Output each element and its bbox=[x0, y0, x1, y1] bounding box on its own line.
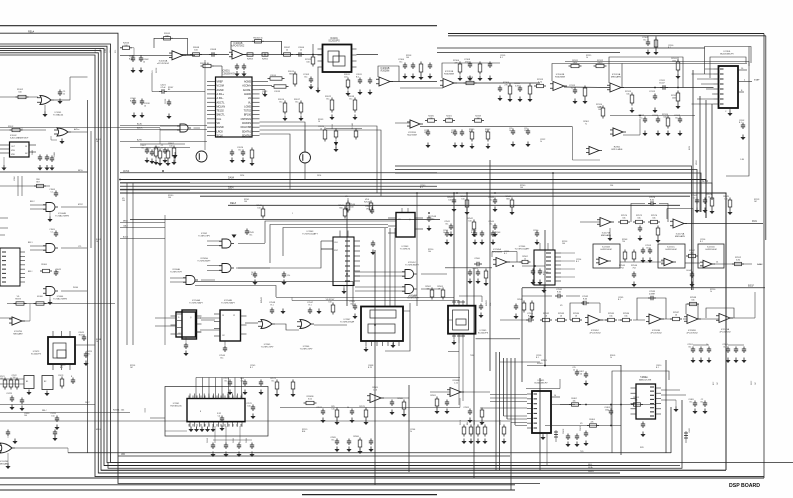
wire bottom bus SDA bbox=[108, 400, 682, 468]
svg-text:SDATA2: SDATA2 bbox=[242, 134, 252, 137]
svg-text:R2561 10k: R2561 10k bbox=[113, 410, 125, 412]
wire 2551D out bbox=[714, 263, 752, 265]
capacitor C2480 bbox=[7, 430, 9, 433]
capacitor C2546v bbox=[254, 272, 256, 275]
svg-text:15k: 15k bbox=[624, 315, 627, 317]
IC IC2546 164 body bbox=[534, 250, 555, 285]
capacitor C2544m bbox=[494, 224, 496, 227]
svg-text:B2: B2 bbox=[44, 381, 46, 383]
resistor R2580 bbox=[402, 402, 406, 409]
svg-text:CLK: CLK bbox=[334, 242, 339, 244]
svg-text:B.1: B.1 bbox=[618, 299, 621, 301]
capacitor C2317 bbox=[461, 130, 463, 133]
svg-text:B1: B1 bbox=[543, 274, 545, 276]
capacitor C2312 bbox=[644, 117, 646, 120]
wire ACD5 bbox=[120, 238, 165, 240]
capacitor C2478b bbox=[11, 396, 13, 399]
svg-text:R2565: R2565 bbox=[486, 299, 488, 306]
capacitor C2318 bbox=[679, 117, 681, 120]
IC IC2551B box bbox=[593, 244, 620, 268]
svg-text:100: 100 bbox=[194, 50, 198, 52]
capacitor C2554 bbox=[633, 272, 635, 275]
svg-text:470: 470 bbox=[447, 118, 450, 120]
wire bus REL bbox=[228, 204, 680, 206]
svg-text:1k: 1k bbox=[443, 232, 445, 234]
capacitor C2562c bbox=[469, 270, 471, 273]
wire bottom frame bbox=[0, 477, 764, 479]
resistor R2017 bbox=[299, 103, 303, 112]
svg-text:C.1k: C.1k bbox=[454, 382, 458, 384]
capacitor C2586b bbox=[348, 439, 350, 442]
svg-text:AGND: AGND bbox=[244, 81, 251, 84]
op-amp IC2001Bb bbox=[553, 81, 564, 90]
svg-text:C1k: C1k bbox=[331, 408, 334, 410]
capacitor C2583b bbox=[469, 409, 471, 412]
svg-text:B.1: B.1 bbox=[536, 357, 539, 359]
op-amp IC2471B bbox=[600, 217, 611, 226]
resistor R2318 bbox=[475, 119, 482, 122]
resistor R2576r bbox=[710, 198, 714, 206]
capacitor C2314 bbox=[657, 117, 659, 120]
IC FF2005 body bbox=[176, 312, 196, 337]
capacitor C2548g bbox=[271, 308, 273, 311]
svg-text:R2571: R2571 bbox=[460, 420, 462, 425]
svg-text:IC2001A: IC2001A bbox=[159, 60, 168, 63]
resistor R2584 bbox=[573, 318, 580, 321]
wire vert x417 bbox=[416, 193, 418, 306]
svg-text:L2401: L2401 bbox=[689, 428, 691, 433]
wire opamp out chain bbox=[243, 54, 322, 56]
IC left DIP pins bbox=[2, 251, 6, 253]
IC IC2101 inner detail bbox=[328, 51, 339, 62]
op-amp IC2581Ax bbox=[687, 314, 698, 323]
IC IC9002 body bbox=[10, 142, 30, 157]
wire A2S0 bbox=[120, 141, 207, 143]
wire c2581 row bbox=[522, 295, 552, 297]
gate IC9003 bbox=[57, 128, 68, 136]
svg-text:100: 100 bbox=[306, 61, 310, 63]
svg-text:C2565: C2565 bbox=[233, 438, 235, 443]
svg-text:TST02: TST02 bbox=[244, 110, 252, 113]
svg-text:C-84: C-84 bbox=[740, 159, 744, 161]
wire ladder2 bbox=[564, 86, 610, 89]
svg-text:1M: 1M bbox=[717, 382, 719, 385]
svg-text:754: 754 bbox=[620, 267, 624, 269]
IC FF2544B body bbox=[220, 310, 241, 341]
wire vert V bbox=[705, 100, 707, 218]
svg-text:10k: 10k bbox=[622, 217, 625, 219]
capacitor C2043l bbox=[83, 335, 85, 338]
svg-text:LRCK: LRCK bbox=[217, 130, 224, 133]
wire 164b outs bbox=[561, 252, 575, 254]
svg-text:TC74HC74FV: TC74HC74FV bbox=[198, 235, 211, 237]
svg-text:NC: NC bbox=[25, 153, 28, 155]
resistor R2564c bbox=[484, 271, 488, 278]
resistor R2007b bbox=[166, 151, 170, 158]
svg-text:13: 13 bbox=[222, 315, 224, 317]
wire vert D bbox=[453, 193, 455, 306]
IC IC2551C box bbox=[658, 244, 685, 268]
svg-text:B04: B04 bbox=[481, 422, 483, 425]
op-amp IC2581C bbox=[588, 315, 600, 325]
svg-text:B.1: B.1 bbox=[656, 367, 659, 369]
svg-text:BFL#: BFL# bbox=[28, 271, 33, 273]
wire bus AVSS bbox=[120, 172, 437, 174]
capacitor C2404b bbox=[576, 434, 578, 437]
svg-text:R2963: R2963 bbox=[247, 59, 254, 61]
svg-text:B07: B07 bbox=[36, 181, 39, 183]
svg-text:15k: 15k bbox=[609, 315, 612, 317]
resistor R2611 bbox=[346, 80, 350, 87]
IC IC2561 outer box bbox=[165, 387, 268, 437]
wire lb rows bbox=[0, 378, 24, 380]
wire g2542a io bbox=[207, 240, 222, 242]
capacitor C2553 bbox=[649, 248, 651, 251]
IC IC2561 pins bottom bbox=[189, 422, 191, 427]
svg-text:BFL1: BFL1 bbox=[28, 242, 33, 244]
svg-text:uPC4570G2: uPC4570G2 bbox=[589, 333, 601, 335]
capacitor C2580 bbox=[391, 400, 393, 403]
svg-text:MBS1: MBS1 bbox=[696, 160, 698, 165]
svg-text:1M: 1M bbox=[477, 118, 480, 120]
capacitor box C2475a bbox=[24, 376, 34, 389]
resistor R2587 bbox=[673, 317, 680, 320]
svg-text:800: 800 bbox=[339, 207, 342, 209]
wire vert x127 bbox=[126, 183, 128, 345]
svg-text:B.1: B.1 bbox=[238, 149, 242, 151]
wire 164 clk wires bbox=[321, 248, 333, 250]
IC IC2565 body bbox=[448, 306, 476, 334]
svg-text:B.32: B.32 bbox=[650, 199, 655, 201]
wire fb 2561A bbox=[492, 252, 517, 263]
resistor R2573v bbox=[476, 427, 480, 434]
wire left bus line 6 bbox=[0, 53, 620, 473]
wire g2546 out bbox=[314, 324, 347, 326]
svg-text:150: 150 bbox=[51, 415, 54, 417]
svg-text:IC2471A: IC2471A bbox=[676, 233, 685, 236]
svg-text:4.7k: 4.7k bbox=[538, 81, 542, 83]
svg-text:100: 100 bbox=[122, 200, 125, 202]
wire opamp input bbox=[180, 54, 229, 56]
svg-text:C2563: C2563 bbox=[207, 438, 209, 443]
IC IC2301 left pins bbox=[714, 68, 719, 70]
svg-text:100: 100 bbox=[244, 201, 247, 203]
capacitor C2405 bbox=[694, 401, 696, 404]
resistor R2008 bbox=[172, 148, 176, 156]
wire left top row bbox=[0, 96, 38, 98]
ground 164b bbox=[541, 290, 546, 293]
wire caps tie bbox=[693, 344, 709, 346]
svg-text:B1k: B1k bbox=[451, 132, 454, 134]
wire bottom bus d bbox=[98, 472, 620, 474]
svg-text:VREF: VREF bbox=[217, 81, 224, 84]
resistor R2321 bbox=[446, 119, 453, 122]
wire FF2543 inputs bbox=[265, 221, 396, 243]
svg-text:ME16ARV: ME16ARV bbox=[13, 332, 23, 335]
svg-text:1M: 1M bbox=[755, 382, 757, 385]
capacitor C2541m bbox=[450, 224, 452, 227]
svg-text:754: 754 bbox=[622, 241, 625, 243]
svg-text:B.78: B.78 bbox=[368, 367, 372, 369]
svg-text:RXD: RXD bbox=[640, 447, 644, 449]
svg-text:IXB: IXB bbox=[121, 453, 125, 456]
capacitor C2563c bbox=[477, 270, 479, 273]
wire vert P bbox=[544, 230, 546, 365]
resistor R2577 bbox=[656, 228, 660, 235]
capacitor C2612 bbox=[369, 78, 371, 81]
svg-text:DA94: DA94 bbox=[228, 177, 235, 180]
wire bus mid d bbox=[120, 188, 640, 190]
IC IC2547 inner a bbox=[370, 310, 396, 318]
svg-text:C2560: C2560 bbox=[474, 258, 480, 260]
svg-text:SDATA1: SDATA1 bbox=[242, 130, 252, 133]
svg-text:TC74HC74FV: TC74HC74FV bbox=[261, 346, 274, 348]
capacitor C2578 bbox=[351, 409, 353, 412]
svg-text:ME16ARV: ME16ARV bbox=[611, 76, 622, 79]
svg-text:L2401: L2401 bbox=[551, 427, 553, 432]
svg-text:TC74HC164AFT: TC74HC164AFT bbox=[515, 247, 531, 250]
svg-text:RV-14B: RV-14B bbox=[352, 122, 354, 129]
resistor R2301t bbox=[654, 40, 658, 47]
wire fb 2581A2 bbox=[706, 308, 734, 318]
resistor R2311t bbox=[571, 64, 579, 67]
svg-text:R2003: R2003 bbox=[156, 68, 158, 73]
capacitor C2306 bbox=[429, 63, 431, 66]
svg-text:TC74HC164AFT: TC74HC164AFT bbox=[302, 233, 318, 236]
wire 2473 row bbox=[75, 344, 95, 346]
capacitor C2006ff bbox=[185, 343, 187, 346]
capacitor C2582 bbox=[581, 302, 584, 304]
svg-text:BAAF: BAAF bbox=[757, 263, 763, 266]
svg-text:TC74ACT08FN: TC74ACT08FN bbox=[55, 214, 69, 217]
svg-text:MCLKN: MCLKN bbox=[217, 105, 226, 108]
svg-text:10: 10 bbox=[144, 105, 146, 107]
svg-text:1k: 1k bbox=[286, 50, 289, 52]
wire IC2301 loop c bbox=[565, 62, 749, 67]
gate IC2004A bbox=[186, 276, 195, 285]
wire row 425 bbox=[545, 425, 621, 427]
wire left mid row bbox=[0, 185, 50, 187]
wire opamp2 fb bbox=[378, 66, 399, 82]
svg-text:B.1: B.1 bbox=[724, 346, 727, 348]
capacitor C2003 bbox=[236, 64, 238, 67]
IC IC2547 body bbox=[361, 307, 403, 342]
gate IC9004B bbox=[46, 203, 55, 212]
wire vert E bbox=[466, 193, 468, 306]
resistor R2575 bbox=[636, 220, 643, 223]
svg-text:B4: B4 bbox=[168, 89, 170, 91]
svg-text:BU4053BCFV: BU4053BCFV bbox=[720, 54, 734, 56]
resistor R2574 bbox=[621, 220, 628, 223]
wire 2473b io bbox=[430, 391, 450, 393]
svg-text:10: 10 bbox=[580, 373, 582, 375]
wire opamp l io bbox=[0, 317, 12, 319]
svg-text:100: 100 bbox=[13, 377, 16, 379]
wire IC2101 out bbox=[357, 54, 379, 56]
op-amp IC2551D tri bbox=[703, 260, 712, 267]
wire CAL0 bbox=[120, 227, 165, 229]
svg-text:R9473: R9473 bbox=[15, 298, 21, 300]
capacitor C2026 bbox=[242, 150, 244, 153]
wire vert O bbox=[539, 378, 541, 470]
svg-text:SC2002PS: SC2002PS bbox=[328, 41, 340, 43]
resistor R2579 bbox=[364, 410, 368, 417]
svg-text:AVSS: AVSS bbox=[123, 170, 130, 173]
capacitor C2307 bbox=[412, 63, 414, 66]
IC FF2543 body bbox=[396, 213, 415, 238]
wire R2021 link bbox=[213, 65, 222, 67]
svg-text:CAL: CAL bbox=[217, 118, 222, 121]
wire vert x463b bbox=[462, 338, 464, 401]
svg-text:IC2601: IC2601 bbox=[640, 377, 647, 379]
svg-text:R2401: R2401 bbox=[537, 363, 543, 365]
svg-text:100: 100 bbox=[18, 91, 22, 93]
wire IC2601 outline bbox=[612, 371, 669, 453]
resistor R2015 bbox=[293, 74, 297, 84]
capacitor C2546d bbox=[474, 231, 476, 234]
wire 3021 bl wires bbox=[504, 415, 528, 417]
svg-text:100: 100 bbox=[724, 198, 727, 200]
op-amp IC2471Bl bbox=[12, 317, 22, 325]
svg-text:R2580: R2580 bbox=[397, 398, 403, 400]
svg-text:VD: VD bbox=[580, 423, 583, 425]
wire fb 2581C bbox=[570, 303, 583, 320]
svg-text:R.32: R.32 bbox=[251, 274, 255, 276]
IC IC2543 164 inner pins bbox=[345, 240, 350, 242]
svg-text:100: 100 bbox=[562, 243, 565, 245]
svg-text:BPF1-MEE: BPF1-MEE bbox=[612, 149, 623, 151]
svg-text:IC2301B: IC2301B bbox=[381, 68, 390, 70]
wire U2001 right nets bbox=[260, 81, 269, 83]
capacitor C2321 bbox=[527, 129, 529, 132]
svg-text:C.1: C.1 bbox=[51, 191, 54, 193]
resistor R9102 bbox=[18, 95, 26, 98]
capacitor C2576f bbox=[648, 203, 651, 205]
wire vert W bbox=[711, 104, 713, 200]
wire chain in bbox=[500, 319, 528, 321]
wire IC2471A fb box bbox=[667, 209, 693, 224]
svg-text:100: 100 bbox=[168, 197, 171, 199]
wire vert H bbox=[495, 352, 497, 470]
wire vert x457j bbox=[456, 192, 458, 194]
svg-text:C9005: C9005 bbox=[54, 152, 56, 157]
capacitor C2007a bbox=[146, 148, 148, 151]
resistor R2583 bbox=[558, 318, 565, 321]
resistor R2319 bbox=[470, 132, 474, 139]
wire bottom bus c bbox=[101, 469, 726, 471]
resistor R2016 bbox=[283, 103, 287, 112]
wire left row2 bbox=[0, 129, 46, 131]
svg-text:C2008: C2008 bbox=[210, 49, 217, 51]
wire fb2 bbox=[552, 64, 622, 88]
gate IC9004D bbox=[46, 287, 55, 296]
svg-text:10k: 10k bbox=[426, 288, 429, 290]
svg-text:B.1: B.1 bbox=[576, 261, 579, 263]
wire bm top row bbox=[196, 377, 460, 379]
svg-text:100: 100 bbox=[247, 405, 250, 407]
IC IC2565 pins top bbox=[453, 300, 455, 306]
IC IC2543 164 body bbox=[333, 237, 354, 286]
transistor Q2001 bbox=[196, 151, 207, 162]
resistor R2544m bbox=[346, 203, 350, 210]
svg-text:REL#: REL# bbox=[230, 202, 237, 205]
svg-text:B.1: B.1 bbox=[250, 234, 253, 236]
svg-text:C2478: C2478 bbox=[6, 393, 12, 395]
svg-text:AGND: AGND bbox=[244, 93, 251, 96]
svg-text:BFL2: BFL2 bbox=[30, 201, 35, 203]
capacitor C2541d bbox=[446, 231, 448, 234]
IC left DIP body bbox=[0, 248, 20, 286]
svg-text:HURD50UM: HURD50UM bbox=[600, 249, 611, 251]
capacitor C9005 bbox=[51, 156, 53, 159]
wire bottom line 3 bbox=[0, 489, 515, 491]
svg-text:TC74HC595AF: TC74HC595AF bbox=[340, 321, 355, 324]
wire vert x390 bbox=[389, 228, 391, 306]
wire left bus line 5 bbox=[0, 51, 726, 471]
IC IC2301 body bbox=[719, 66, 739, 108]
wire g2476 out bbox=[15, 447, 68, 449]
svg-text:100: 100 bbox=[406, 57, 409, 59]
resistor R2545m bbox=[369, 203, 373, 210]
IC IC3021 loop bbox=[526, 379, 560, 389]
svg-text:C2014: C2014 bbox=[270, 75, 277, 77]
IC IC2401 body bbox=[636, 384, 656, 419]
wire IC2565 top loop bbox=[459, 296, 482, 302]
ground g9004 bbox=[47, 219, 52, 222]
IC IC2101 pins right bbox=[352, 48, 357, 50]
resistor R2576 bbox=[651, 220, 658, 223]
capacitor C2594 bbox=[727, 347, 729, 350]
svg-text:E9106: E9106 bbox=[37, 296, 42, 298]
svg-text:C&: C& bbox=[218, 415, 221, 417]
svg-text:1k: 1k bbox=[710, 291, 712, 293]
wire vert x133 bbox=[132, 183, 134, 345]
resistor R2313b bbox=[537, 84, 544, 87]
wire c2301 link bbox=[647, 36, 649, 40]
capacitor C2402b bbox=[567, 434, 569, 437]
svg-text:D254: D254 bbox=[240, 175, 244, 177]
wire IC2301 loop b bbox=[710, 57, 746, 78]
svg-text:B.1: B.1 bbox=[490, 199, 493, 201]
capacitor C2547d bbox=[481, 231, 483, 234]
resistor R9105 bbox=[16, 302, 24, 305]
wire bottom line 2 bbox=[0, 484, 515, 486]
svg-text:B.1: B.1 bbox=[279, 101, 283, 103]
IC IC3021 right pins bbox=[551, 396, 560, 398]
resistor R2068 bbox=[193, 53, 200, 56]
wire IC2301 left wires bbox=[705, 68, 714, 70]
svg-text:B.16: B.16 bbox=[129, 58, 133, 60]
svg-text:BS1F: BS1F bbox=[748, 285, 755, 288]
gate IC2542A bbox=[222, 239, 231, 248]
resistor R2320 bbox=[428, 119, 435, 122]
svg-text:16: 16 bbox=[509, 130, 511, 132]
op-amp IC2311C bbox=[410, 120, 420, 128]
IC FF2544A body bbox=[182, 310, 197, 339]
wire r2311 tie bbox=[677, 57, 679, 62]
svg-text:C1k: C1k bbox=[240, 380, 243, 382]
svg-text:6.8k: 6.8k bbox=[736, 259, 740, 261]
resistor R2546 bbox=[632, 252, 636, 259]
svg-text:13: 13 bbox=[25, 146, 27, 148]
svg-text:D/D4: D/D4 bbox=[228, 186, 234, 189]
svg-text:C2402: C2402 bbox=[563, 429, 565, 434]
op-amp IC2551B tri bbox=[599, 257, 608, 264]
resistor R2001 bbox=[262, 53, 268, 56]
capacitor C2407 bbox=[585, 372, 587, 375]
capacitor C2575 bbox=[639, 226, 641, 229]
svg-text:B.1: B.1 bbox=[295, 101, 299, 103]
